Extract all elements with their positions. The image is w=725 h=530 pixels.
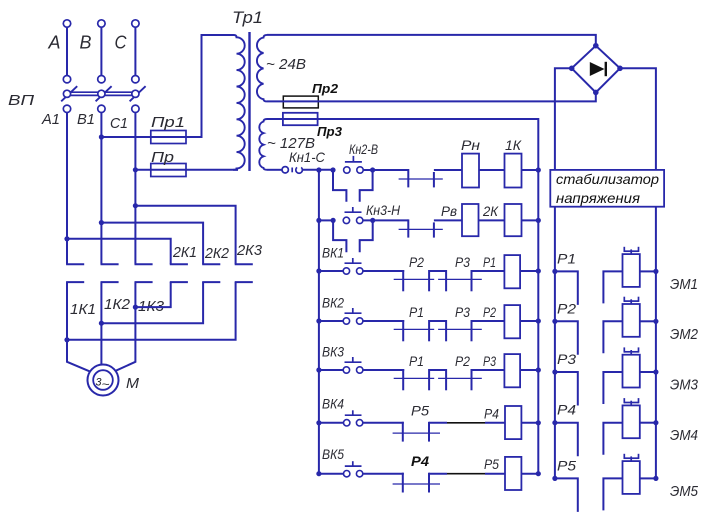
switch ВП lower terminal xyxy=(132,105,139,112)
interlock wire row2 left xyxy=(333,220,346,252)
terminal B switch upper xyxy=(98,76,105,83)
svg-text:1К: 1К xyxy=(505,138,522,153)
wire fuse Пр to transformer primary xyxy=(186,169,238,171)
switch ВП lower terminal xyxy=(98,105,105,112)
svg-text:ВК4: ВК4 xyxy=(322,396,344,411)
wire 2К to right bus xyxy=(522,219,539,221)
switch ВП blade xyxy=(96,86,112,101)
wire ВК1 bus to button xyxy=(319,270,343,272)
wire to coil Р5 xyxy=(485,473,505,475)
junction EM left bus row 2 xyxy=(552,319,557,324)
wire 2К2 return xyxy=(101,282,203,323)
wire 1К1 to motor xyxy=(67,282,90,371)
contact Р5 bar xyxy=(393,432,440,434)
contactor contact upper foot xyxy=(170,263,188,265)
svg-text:В: В xyxy=(80,33,92,53)
contact Р5 EM left xyxy=(555,478,578,512)
wire bridge right to EM right bus xyxy=(620,68,656,478)
contactor contact lower foot xyxy=(101,281,119,283)
junction EM left bus row 1 xyxy=(552,269,557,274)
svg-text:Р4: Р4 xyxy=(557,403,576,418)
wire ВК5 button to contact xyxy=(363,473,404,475)
wire C1 phase xyxy=(134,113,136,265)
svg-text:Р3: Р3 xyxy=(557,352,577,367)
svg-text:Кн1-С: Кн1-С xyxy=(289,149,326,165)
relay coil Р5 xyxy=(505,457,521,490)
electromagnet ЭМ3 xyxy=(623,355,640,388)
svg-text:Р5: Р5 xyxy=(484,457,499,472)
junction A1 branch xyxy=(64,236,69,241)
fuse Пр3 xyxy=(283,113,318,125)
svg-text:Р4: Р4 xyxy=(484,406,499,421)
contact Р4 blades xyxy=(402,473,404,493)
wire A1 phase xyxy=(66,113,68,265)
junction bridge top xyxy=(593,43,599,49)
svg-text:Рв: Рв xyxy=(441,204,457,219)
motor M xyxy=(88,365,119,396)
svg-text:Р4: Р4 xyxy=(411,453,429,469)
svg-text:1К2: 1К2 xyxy=(104,296,131,313)
limit switch ВК5 xyxy=(344,471,350,477)
contact Р4 EM right xyxy=(603,423,622,455)
bridge diode xyxy=(590,62,605,76)
wire 24V bottom through Пр2 to bridge xyxy=(267,95,596,102)
svg-text:напряжения: напряжения xyxy=(556,190,641,206)
fuse Пр xyxy=(151,164,186,177)
wire phase B xyxy=(100,27,102,75)
svg-text:Пр1: Пр1 xyxy=(151,114,185,131)
contact Р3 bar xyxy=(438,278,482,280)
switch ВП blade xyxy=(61,86,77,101)
svg-text:Пр2: Пр2 xyxy=(312,81,339,96)
wire coil Р2 to right bus xyxy=(520,320,538,322)
electromagnet ЭМ2 xyxy=(623,304,640,337)
junction EM right bus row 1 xyxy=(653,269,658,274)
svg-text:~ 24В: ~ 24В xyxy=(266,56,306,73)
svg-text:Пр3: Пр3 xyxy=(317,124,343,139)
junction bridge right xyxy=(617,66,623,72)
switch ВП pivot xyxy=(98,90,105,97)
contact Р1 EM left xyxy=(555,271,578,305)
switch ВП bar xyxy=(65,91,137,93)
svg-text:Кн2-В: Кн2-В xyxy=(349,141,378,157)
terminal A top xyxy=(63,20,70,27)
wire ВК5 bus to button xyxy=(319,473,343,475)
contact row2 bar xyxy=(399,228,443,230)
svg-text:Р3: Р3 xyxy=(483,354,496,369)
wire row2 bus to button xyxy=(319,219,333,221)
svg-text:Р1: Р1 xyxy=(409,305,424,320)
wire contact to coil Р2 xyxy=(472,320,505,322)
wire B1 phase xyxy=(100,113,102,265)
svg-text:Р5: Р5 xyxy=(411,402,429,418)
junction Кн3-Н left xyxy=(331,218,336,223)
contact Р2 EM left xyxy=(555,321,578,355)
svg-text:Р2: Р2 xyxy=(483,305,496,320)
junction right bus row1 xyxy=(536,167,541,172)
terminal B top xyxy=(98,20,105,27)
wire coil Р5 to right bus xyxy=(521,473,538,475)
interlock wire row2 right xyxy=(360,220,373,252)
junction C1-Пр xyxy=(133,167,138,172)
electromagnet ЭМ1 xyxy=(623,254,640,287)
junction Кн2-В left xyxy=(330,167,335,172)
wire contact to coil Р4 blue xyxy=(429,422,447,424)
wire branch C1 to 2К3 xyxy=(135,206,235,265)
contactor contact lower foot xyxy=(135,281,153,283)
svg-text:А1: А1 xyxy=(41,111,60,128)
rectifier bridge xyxy=(572,46,620,93)
wire contact to coil Р3 xyxy=(472,369,505,371)
wire 24V top to bridge xyxy=(267,35,596,43)
junction left bus ВК3 xyxy=(316,367,321,372)
pushbutton Кн3-Н xyxy=(343,217,349,223)
svg-text:Р1: Р1 xyxy=(557,251,576,266)
wire contact to coil Р5 black xyxy=(447,473,485,475)
svg-text:2К2: 2К2 xyxy=(204,245,230,262)
junction left bus ВК1 xyxy=(316,268,321,273)
junction B1-Пр1 xyxy=(99,134,104,139)
contactor contact lower foot xyxy=(235,281,253,283)
contactor contact lower foot xyxy=(202,281,220,283)
wire branch B1 to 2К2 xyxy=(101,223,203,265)
wire phase A xyxy=(66,27,68,75)
wire to coil Р4 xyxy=(485,422,505,424)
junction 2К1-C motor xyxy=(133,305,138,310)
wire Рв to 2К xyxy=(479,219,505,221)
relay coil Р2 xyxy=(504,305,520,338)
wire ЭМ2 to right bus xyxy=(640,320,656,322)
svg-text:ВК2: ВК2 xyxy=(322,296,344,311)
wire contact to coil Р4 black xyxy=(447,422,485,424)
wire 127V through Пр3 to right bus xyxy=(267,119,538,474)
svg-text:Тр1: Тр1 xyxy=(232,8,263,27)
wire ВК4 bus to button xyxy=(319,422,343,424)
svg-text:1К1: 1К1 xyxy=(70,301,96,318)
wire 127V bottom to Кн1-С xyxy=(267,169,282,171)
wire ЭМ4 to right bus xyxy=(640,422,656,424)
wire coil Р4 to right bus xyxy=(521,422,538,424)
wire ВК4 button to contact xyxy=(363,422,404,424)
transformer Тр1 primary winding xyxy=(233,35,245,170)
junction left bus row2 xyxy=(316,218,321,223)
svg-text:С: С xyxy=(115,33,128,53)
electromagnet ЭМ5 xyxy=(623,461,640,494)
wire phase C xyxy=(134,27,136,75)
wire ЭМ3 to right bus xyxy=(640,371,656,373)
pushbutton Кн1-С xyxy=(282,167,288,173)
contactor contact upper foot xyxy=(202,263,220,265)
junction bridge left xyxy=(569,66,575,72)
interlock wire row1 left xyxy=(333,170,346,202)
svg-text:Р2: Р2 xyxy=(557,301,577,316)
junction left bus row1 xyxy=(316,167,321,172)
wire B1 to fuse Пр1 xyxy=(101,136,186,138)
wire ЭМ5 to right bus xyxy=(640,477,656,479)
junction EM left bus row 4 xyxy=(552,420,557,425)
svg-text:ВК3: ВК3 xyxy=(322,345,344,360)
junction EM left bus row 5 xyxy=(552,476,557,481)
svg-text:ЭМ3: ЭМ3 xyxy=(670,377,699,394)
transformer Тр1 core xyxy=(248,32,250,171)
junction EM right bus row 4 xyxy=(653,420,658,425)
svg-text:Пр: Пр xyxy=(151,149,174,166)
svg-text:Р2: Р2 xyxy=(409,255,424,270)
junction Кн2-В right xyxy=(370,167,375,172)
wire ВК1 button to contact xyxy=(363,270,404,272)
svg-text:Р3: Р3 xyxy=(455,255,470,270)
relay coil Рн xyxy=(462,154,479,188)
terminal C switch upper xyxy=(132,76,139,83)
svg-text:~: ~ xyxy=(102,379,111,391)
svg-text:В1: В1 xyxy=(77,111,95,128)
contactor contact lower foot xyxy=(170,281,188,283)
relay coil 2К row2 xyxy=(505,204,522,236)
relay coil Р1 xyxy=(504,255,520,288)
svg-text:ЭМ2: ЭМ2 xyxy=(670,326,699,343)
svg-text:2К: 2К xyxy=(482,204,499,219)
transformer Тр1 secondary 24V winding xyxy=(257,35,267,102)
wire fuse Пр1 to transformer primary xyxy=(186,35,234,137)
wire ladder left bus xyxy=(318,170,320,474)
junction right bus ВК3 xyxy=(536,367,541,372)
wire ВК2 bus to button xyxy=(319,320,343,322)
contact Р4 EM left xyxy=(555,423,578,457)
contact row1 bar xyxy=(399,178,443,180)
wire Кн1-С to bus xyxy=(303,169,333,171)
wire 1К3 to motor xyxy=(115,282,136,371)
wire Рн to 1К xyxy=(479,169,505,171)
wire 1К to right bus xyxy=(522,169,539,171)
svg-text:Рн: Рн xyxy=(461,138,481,153)
contact Р3 bar xyxy=(438,328,482,330)
transformer Тр1 secondary 127V winding xyxy=(259,119,267,170)
wire row2 button to contact xyxy=(363,219,408,221)
wire ВК3 bus to button xyxy=(319,369,343,371)
svg-text:А: А xyxy=(48,33,61,53)
limit switch ВК3 xyxy=(343,367,349,373)
limit switch ВК1 xyxy=(343,268,349,274)
limit switch ВК4 xyxy=(344,420,350,426)
wire row1 button to contact xyxy=(363,169,408,171)
contactor contact upper foot xyxy=(101,263,119,265)
svg-text:ЭМ1: ЭМ1 xyxy=(670,276,698,293)
svg-text:ВК5: ВК5 xyxy=(322,447,344,462)
junction right bus ВК2 xyxy=(536,318,541,323)
svg-text:Р1: Р1 xyxy=(409,354,424,369)
junction EM left bus row 3 xyxy=(552,369,557,374)
contact Р1 blades xyxy=(402,369,404,390)
contact row2 blades xyxy=(407,219,409,237)
interlock wire row1 right xyxy=(360,170,373,202)
pushbutton Кн2-В xyxy=(344,167,350,173)
relay coil Р4 xyxy=(505,406,521,439)
junction right bus ВК4 xyxy=(536,420,541,425)
contact Р5 blades xyxy=(402,422,404,442)
wire C1 to fuse Пр xyxy=(135,169,186,171)
contactor contact upper foot xyxy=(135,263,153,265)
contact Р3 EM right xyxy=(603,372,622,404)
junction Кн3-Н right xyxy=(370,218,375,223)
junction EM right bus row 5 xyxy=(653,476,658,481)
terminal C top xyxy=(132,20,139,27)
svg-text:ВП: ВП xyxy=(8,92,34,109)
contact Р1 bar xyxy=(394,328,435,330)
svg-text:ЭМ5: ЭМ5 xyxy=(670,483,699,500)
junction left bus ВК5 xyxy=(316,471,321,476)
junction 2К2-B motor xyxy=(99,321,104,326)
fuse Пр1 xyxy=(151,131,186,144)
contact Р2 bar xyxy=(394,278,435,280)
junction left bus ВК2 xyxy=(316,318,321,323)
svg-text:М: М xyxy=(126,375,140,392)
wire coil Р3 to right bus xyxy=(520,369,538,371)
contact Р3 EM left xyxy=(555,372,578,406)
junction B1 branch xyxy=(99,220,104,225)
svg-text:2К1: 2К1 xyxy=(172,244,197,261)
contact Р3 blades xyxy=(429,320,446,322)
wire ЭМ1 to right bus xyxy=(640,270,656,272)
junction right bus ВК5 xyxy=(536,471,541,476)
svg-text:ВК1: ВК1 xyxy=(322,246,344,261)
relay coil 1К row1 xyxy=(505,154,522,188)
switch ВП lower terminal xyxy=(63,105,70,112)
svg-text:Р5: Р5 xyxy=(557,458,577,473)
wire contact to coil Р5 blue xyxy=(429,473,447,475)
contactor contact lower foot xyxy=(66,281,84,283)
wire contact to coil Р1 xyxy=(472,270,505,272)
svg-text:2К3: 2К3 xyxy=(236,242,263,259)
svg-text:С1: С1 xyxy=(110,115,128,132)
contact Р2 EM right xyxy=(603,321,622,353)
wire branch A1 to 2К1 xyxy=(67,239,171,264)
wire coil Р1 to right bus xyxy=(520,270,538,272)
switch ВП pivot xyxy=(132,90,139,97)
junction 2К3-A motor xyxy=(64,337,69,342)
junction right bus row2 xyxy=(536,218,541,223)
junction EM right bus row 3 xyxy=(653,369,658,374)
fuse Пр2 xyxy=(283,96,318,108)
wire ВК3 button to contact xyxy=(363,369,404,371)
contact Р4 bar xyxy=(393,483,440,485)
wire 2К3 return xyxy=(67,282,236,340)
relay coil Р3 xyxy=(504,354,520,387)
limit switch ВК2 xyxy=(343,318,349,324)
wire bridge left to EM left bus xyxy=(555,68,572,478)
contact Р1 EM right xyxy=(603,271,622,303)
contact Р2 bar xyxy=(438,377,482,379)
terminal A switch upper xyxy=(63,76,70,83)
svg-text:стабилизатор: стабилизатор xyxy=(556,171,659,187)
svg-text:Р1: Р1 xyxy=(483,255,496,270)
contactor contact upper foot xyxy=(66,263,84,265)
contact Р5 EM right xyxy=(603,478,622,510)
contactor contact upper foot xyxy=(235,263,253,265)
svg-text:Р2: Р2 xyxy=(455,354,470,369)
stabilizer box xyxy=(550,170,664,207)
switch ВП pivot xyxy=(63,90,70,97)
contact Р3 blades xyxy=(429,270,446,272)
junction EM right bus row 2 xyxy=(653,319,658,324)
electromagnet ЭМ4 xyxy=(623,405,640,438)
junction right bus ВК1 xyxy=(536,268,541,273)
contact Р1 blades xyxy=(402,320,404,341)
contact Р2 blades xyxy=(429,369,446,371)
relay coil Рв xyxy=(462,204,479,236)
contact row1 blades xyxy=(407,169,409,187)
wire 1К2 to motor xyxy=(100,282,102,365)
wire ВК2 button to contact xyxy=(363,320,404,322)
svg-text:ЭМ4: ЭМ4 xyxy=(670,427,698,444)
junction bridge bottom xyxy=(593,90,599,96)
junction C1 branch xyxy=(133,203,138,208)
svg-text:Р3: Р3 xyxy=(455,305,470,320)
junction left bus ВК4 xyxy=(316,420,321,425)
contact Р1 bar xyxy=(394,377,435,379)
svg-text:Кн3-Н: Кн3-Н xyxy=(366,202,401,218)
switch ВП blade xyxy=(130,86,146,101)
contact Р2 blades xyxy=(402,270,404,291)
wire 2К1 return xyxy=(135,282,170,307)
